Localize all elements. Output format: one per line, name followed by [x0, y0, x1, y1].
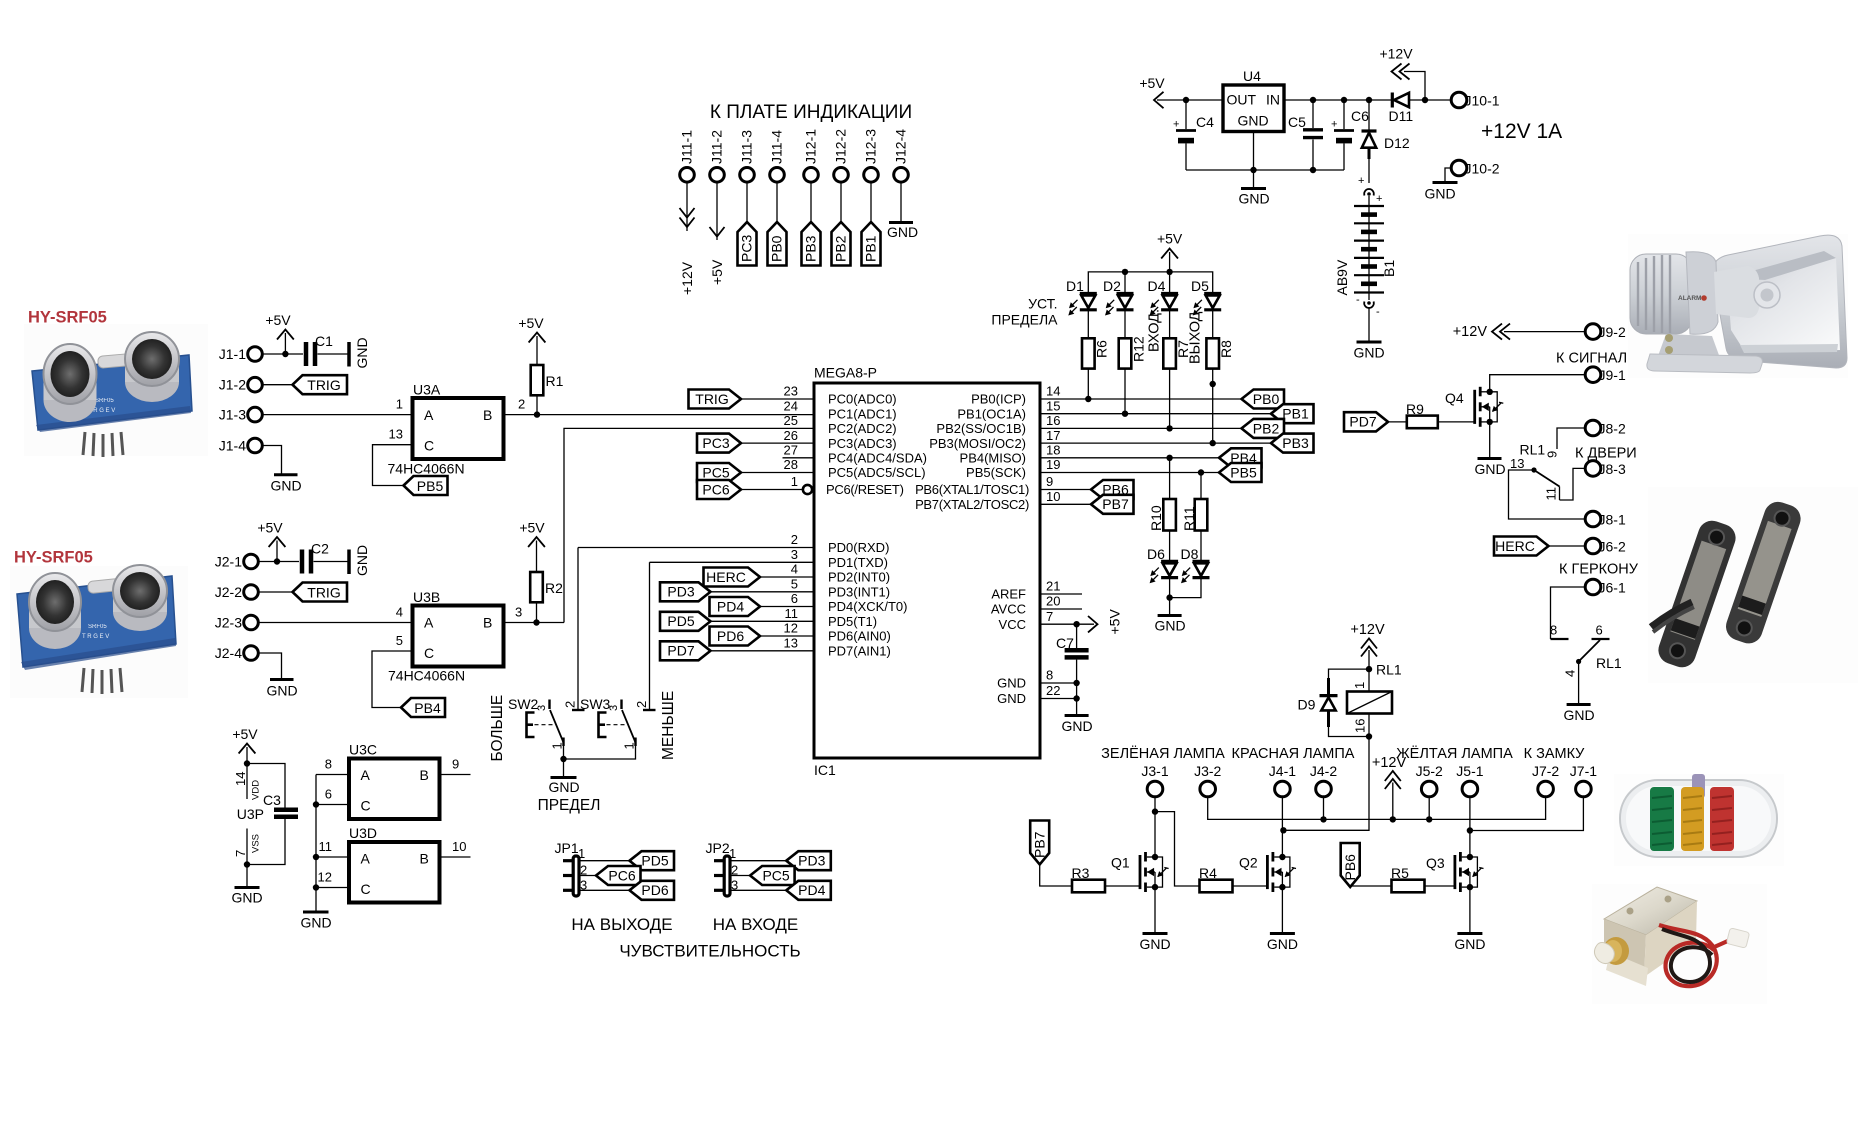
- wire coil to red lamp drain: [1283, 737, 1369, 831]
- svg-text:PC6(/RESET): PC6(/RESET): [826, 482, 904, 497]
- wire R11 drop: [1200, 473, 1202, 500]
- net flag PB0: [1242, 390, 1285, 409]
- svg-text:Q3: Q3: [1426, 855, 1445, 871]
- svg-text:J9-1: J9-1: [1599, 367, 1626, 383]
- wire C1 to ground: [318, 353, 348, 355]
- svg-text:J1-2: J1-2: [219, 377, 246, 393]
- svg-text:PD6(AIN0): PD6(AIN0): [828, 629, 891, 644]
- svg-text:1: 1: [550, 742, 565, 749]
- connector J2-3: [215, 615, 259, 631]
- svg-text:16: 16: [1046, 413, 1060, 428]
- svg-text:PB7(XTAL2/TOSC2): PB7(XTAL2/TOSC2): [915, 497, 1029, 512]
- svg-text:J7-2: J7-2: [1532, 763, 1559, 779]
- svg-text:U4: U4: [1243, 68, 1261, 84]
- svg-text:J8-2: J8-2: [1599, 420, 1626, 436]
- wire J10-2 to ground: [1445, 168, 1451, 182]
- diode D11: [1389, 93, 1452, 125]
- wire JP1-2 to PC6 flag: [579, 875, 596, 877]
- net flag PC3 (up): [738, 222, 757, 266]
- svg-text:D2: D2: [1103, 278, 1121, 294]
- svg-text:IN: IN: [1266, 92, 1280, 108]
- connector J1-2: [219, 377, 263, 393]
- svg-text:GND: GND: [1154, 618, 1185, 634]
- svg-text:ВЫХОД.: ВЫХОД.: [1188, 307, 1204, 364]
- capacitor C5: [1288, 100, 1323, 170]
- svg-text:25: 25: [784, 413, 798, 428]
- svg-text:13: 13: [784, 636, 798, 651]
- svg-text:23: 23: [784, 384, 798, 399]
- connector J2-4: [215, 645, 259, 661]
- svg-text:R1: R1: [546, 373, 564, 389]
- wire D4 drop: [1169, 272, 1171, 294]
- ground (C2, rotated): [349, 545, 370, 576]
- junction R8 wire join: [1210, 381, 1216, 387]
- svg-text:PC3: PC3: [739, 235, 755, 262]
- svg-text:74HC4066N: 74HC4066N: [388, 668, 465, 684]
- wire PB4 line: [1040, 457, 1219, 459]
- svg-text:7: 7: [1046, 609, 1053, 624]
- connector J11-3: [739, 130, 755, 182]
- wire J12-2 to PB2 flag: [840, 182, 842, 222]
- wire U3A pin 13 to PB5 flag: [373, 427, 413, 486]
- connector J5-2: [1416, 763, 1443, 797]
- junction R2/U3B-B: [533, 619, 539, 625]
- svg-text:VCC: VCC: [999, 617, 1026, 632]
- LED D5: [1191, 278, 1221, 316]
- connector J11-1: [679, 130, 695, 182]
- net flag PD6: [710, 627, 815, 646]
- transistor Q3: [1426, 852, 1484, 892]
- junction GND22: [1073, 695, 1079, 701]
- svg-text:20: 20: [1046, 594, 1060, 609]
- junction R8/PB3: [1210, 440, 1216, 446]
- net flag PB3 (up): [802, 222, 821, 266]
- connector J3-1: [1141, 763, 1168, 797]
- ground (U3P): [231, 865, 262, 906]
- svg-text:6: 6: [1596, 623, 1603, 638]
- svg-text:GND: GND: [997, 676, 1026, 691]
- wire grounded-inputs bus: [315, 775, 317, 912]
- photo HY-SRF05 sensor 1: [24, 309, 208, 458]
- label УСТ. ПРЕДЕЛА: [991, 296, 1058, 328]
- junction D12 top: [1366, 97, 1372, 103]
- svg-text:26: 26: [784, 428, 798, 443]
- connector J4-1: [1269, 763, 1296, 797]
- junction R6/PB0: [1085, 396, 1091, 402]
- svg-text:К ЗАМКУ: К ЗАМКУ: [1524, 746, 1586, 762]
- capacitor C1: [306, 333, 333, 366]
- svg-text:4: 4: [396, 605, 403, 620]
- svg-text:OUT: OUT: [1227, 92, 1257, 108]
- connector J8-1: [1585, 511, 1626, 527]
- net flag PB7 (Q1 gate): [1030, 821, 1072, 887]
- wire C3 to VSS: [247, 819, 285, 865]
- svg-text:27: 27: [784, 443, 798, 458]
- analog switch U3D: [349, 825, 440, 903]
- svg-text:PB3: PB3: [1282, 435, 1309, 451]
- wire PD1 riser to SW3: [649, 562, 651, 710]
- svg-text:J3-2: J3-2: [1194, 763, 1221, 779]
- LED D1: [1066, 278, 1097, 316]
- svg-text:9: 9: [1545, 451, 1560, 458]
- svg-text:B: B: [483, 615, 492, 631]
- wire J11-2 to +5V: [716, 182, 718, 240]
- svg-text:J8-1: J8-1: [1599, 511, 1626, 527]
- power +12V (down arrow): [679, 208, 695, 295]
- svg-text:БОЛЬШЕ: БОЛЬШЕ: [489, 695, 506, 762]
- photo siren horn: [1628, 234, 1848, 378]
- wire SW2/SW3 common: [564, 746, 636, 759]
- analog switch U3B: [388, 589, 504, 684]
- wire contact 11 to J8-3: [1560, 468, 1586, 500]
- svg-text:+12V: +12V: [1350, 622, 1385, 638]
- svg-text:14: 14: [233, 772, 248, 786]
- junction J4-1/coil: [1280, 827, 1286, 833]
- svg-text:ПРЕДЕЛ: ПРЕДЕЛ: [538, 797, 601, 814]
- svg-text:2: 2: [518, 397, 525, 412]
- connector J1-4: [219, 438, 263, 454]
- svg-text:GND: GND: [300, 915, 331, 931]
- resistor R6: [1082, 310, 1110, 399]
- IC IC1 MEGA8-P body: [814, 365, 1040, 779]
- wire U3A pin 2 to R1/PC1: [504, 397, 815, 415]
- wire J2-3 to U3B pin 4: [258, 605, 412, 623]
- svg-text:ПРЕДЕЛА: ПРЕДЕЛА: [991, 312, 1058, 328]
- svg-text:+5V: +5V: [1107, 609, 1123, 635]
- capacitor C2: [302, 541, 329, 574]
- wire U3D pin 11: [316, 839, 349, 857]
- resistor R11: [1181, 499, 1207, 561]
- connector J10-1: [1451, 92, 1500, 108]
- wire GND pin 8: [1040, 682, 1077, 684]
- net flag PB5: [1219, 463, 1262, 482]
- svg-text:КРАСНАЯ ЛАМПА: КРАСНАЯ ЛАМПА: [1232, 746, 1355, 762]
- svg-text:14: 14: [1046, 384, 1060, 399]
- power +5V (LED rail): [1157, 231, 1183, 272]
- resistor R12: [1119, 310, 1147, 414]
- svg-text:-: -: [1376, 306, 1380, 318]
- svg-text:PD3: PD3: [798, 853, 825, 869]
- power +5V (VCC, right arrow): [1088, 609, 1123, 635]
- svg-text:JP2: JP2: [706, 840, 730, 856]
- svg-text:ЗЕЛЁНАЯ ЛАМПА: ЗЕЛЁНАЯ ЛАМПА: [1101, 745, 1225, 762]
- svg-text:D6: D6: [1147, 546, 1165, 562]
- wire Q1 source to ground: [1154, 887, 1156, 933]
- svg-text:J3-1: J3-1: [1141, 763, 1168, 779]
- svg-text:21: 21: [1046, 579, 1060, 594]
- resistor R10: [1148, 499, 1176, 561]
- power +5V (U3P VDD): [232, 726, 258, 764]
- wire J1-2 to TRIG flag: [262, 384, 292, 386]
- wire JP2-1 to PD3 flag: [730, 860, 786, 862]
- net flag PB4 (U3B control): [401, 698, 445, 717]
- svg-text:13: 13: [1510, 456, 1524, 471]
- svg-text:+12V: +12V: [1372, 755, 1407, 771]
- battery B1 AB9V: [1334, 175, 1397, 341]
- connector J10-2: [1451, 160, 1500, 176]
- connector J12-3: [863, 129, 879, 182]
- svg-text:J9-2: J9-2: [1599, 324, 1626, 340]
- svg-text:AB9V: AB9V: [1334, 259, 1350, 295]
- svg-text:J2-3: J2-3: [215, 615, 242, 631]
- svg-text:PB4(MISO): PB4(MISO): [960, 451, 1026, 466]
- svg-text:НА ВХОДЕ: НА ВХОДЕ: [713, 915, 798, 934]
- junction J1-1/+5V: [282, 351, 288, 357]
- svg-text:AVCC: AVCC: [991, 602, 1026, 617]
- svg-text:R3: R3: [1072, 865, 1090, 881]
- wire J11-4 to PB0 flag: [776, 182, 778, 222]
- junction VSS/C3: [244, 861, 250, 867]
- junction R10/PB4: [1166, 455, 1172, 461]
- net flag PB0 (up): [768, 222, 787, 266]
- net flag PB4: [1219, 448, 1262, 467]
- svg-text:7: 7: [233, 850, 248, 857]
- wire J12-1 to PB3 flag: [810, 182, 812, 222]
- wire J6-1 to relay contact 8: [1551, 587, 1586, 639]
- net flag PB6: [1091, 480, 1134, 499]
- svg-text:2: 2: [634, 701, 649, 708]
- power +5V (J2-1): [257, 520, 285, 562]
- svg-text:J1-3: J1-3: [219, 407, 246, 423]
- svg-text:PC0(ADC0): PC0(ADC0): [828, 392, 897, 407]
- svg-text:11: 11: [785, 606, 799, 621]
- svg-text:HERC: HERC: [706, 569, 746, 585]
- svg-text:GND: GND: [887, 224, 918, 240]
- svg-text:PB3: PB3: [803, 235, 819, 262]
- svg-text:A: A: [424, 407, 434, 423]
- wire PD0 riser to SW2: [577, 548, 579, 711]
- junction J3-1 jog: [1152, 808, 1158, 814]
- LED D4: [1148, 278, 1179, 316]
- svg-text:B: B: [483, 407, 492, 423]
- net flag PB2 (up): [832, 222, 851, 266]
- svg-text:D11: D11: [1389, 108, 1414, 124]
- svg-text:TRIG: TRIG: [307, 584, 340, 600]
- wire IN rail: [1284, 99, 1391, 101]
- svg-text:GND: GND: [1237, 113, 1268, 129]
- wire ground rail: [1186, 169, 1344, 171]
- wire J11-1 to +12V: [686, 182, 688, 231]
- ground (Q1): [1139, 934, 1170, 953]
- net flag TRIG (J2-2): [293, 583, 348, 602]
- svg-text:D12: D12: [1384, 135, 1410, 151]
- wire PB1 line: [1040, 413, 1271, 415]
- svg-text:HERC: HERC: [1495, 538, 1535, 554]
- analog switch U3C: [349, 742, 440, 820]
- photo HY-SRF05 sensor 2: [10, 549, 188, 699]
- svg-text:PD5(T1): PD5(T1): [828, 614, 877, 629]
- connector J3-2: [1194, 763, 1221, 797]
- svg-text:8: 8: [325, 757, 332, 772]
- wire Q3 source to ground: [1469, 887, 1471, 933]
- svg-text:J12-3: J12-3: [863, 129, 879, 164]
- svg-text:Q4: Q4: [1445, 390, 1464, 406]
- wire LED supply rail: [1088, 272, 1212, 294]
- svg-text:К ДВЕРИ: К ДВЕРИ: [1575, 446, 1637, 462]
- svg-text:C: C: [424, 438, 434, 454]
- wire C2 to ground: [314, 561, 348, 563]
- svg-text:22: 22: [1046, 683, 1060, 698]
- wire D6/D8 to ground: [1170, 578, 1201, 615]
- connector J7-2: [1532, 763, 1559, 797]
- connector J9-2: [1585, 324, 1626, 340]
- wire PB5 line: [1040, 472, 1219, 474]
- connector J1-3: [219, 407, 263, 423]
- wire J12-3 to PB1 flag: [870, 182, 872, 222]
- svg-text:PB3(MOSI/OC2): PB3(MOSI/OC2): [929, 436, 1026, 451]
- svg-text:GND: GND: [1353, 345, 1384, 361]
- svg-text:TRIG: TRIG: [695, 391, 728, 407]
- wire lock bus to J7-1: [1470, 797, 1584, 831]
- svg-text:GND: GND: [270, 478, 301, 494]
- ground (Q4): [1474, 459, 1505, 478]
- net flag PC6 (JP1-2): [596, 866, 641, 885]
- wire JP1-1 to PD5 flag: [579, 860, 630, 862]
- svg-text:GND: GND: [1139, 936, 1170, 952]
- connector J6-1: [1585, 579, 1626, 595]
- svg-text:R10: R10: [1148, 505, 1164, 531]
- transistor Q4: [1445, 387, 1503, 427]
- resistor R3: [1072, 865, 1141, 892]
- junction bus J5-2: [1426, 797, 1432, 823]
- svg-text:12: 12: [318, 870, 332, 885]
- wire J1-4 to ground: [262, 446, 281, 475]
- junction C6 top: [1341, 97, 1347, 103]
- net flag PB7: [1091, 495, 1134, 514]
- svg-text:IC1: IC1: [814, 762, 836, 778]
- svg-text:A: A: [424, 615, 434, 631]
- ground (switch common): [548, 759, 579, 795]
- svg-text:8: 8: [1550, 623, 1557, 638]
- svg-text:PB7: PB7: [1102, 496, 1129, 512]
- wire PB2 line: [1040, 427, 1242, 429]
- LED D6: [1147, 546, 1178, 583]
- svg-text:PD6: PD6: [641, 882, 668, 898]
- resistor R1: [531, 365, 564, 395]
- svg-text:PB6(XTAL1/TOSC1): PB6(XTAL1/TOSC1): [915, 482, 1029, 497]
- svg-text:SW2: SW2: [508, 696, 539, 712]
- svg-text:PC2(ADC2): PC2(ADC2): [828, 421, 897, 436]
- junction pin 6 bus: [313, 801, 319, 807]
- svg-text:C5: C5: [1288, 114, 1306, 130]
- svg-text:D8: D8: [1181, 546, 1199, 562]
- svg-text:D4: D4: [1148, 278, 1166, 294]
- svg-text:10: 10: [1046, 489, 1060, 504]
- svg-text:MEGA8-P: MEGA8-P: [814, 365, 877, 381]
- svg-text:PB4: PB4: [414, 700, 441, 716]
- photo signal lamp: [1614, 774, 1784, 866]
- wire J2-2 to TRIG flag: [258, 591, 292, 593]
- wire Q1 drain to R4 (jog): [1155, 812, 1200, 886]
- svg-text:28: 28: [784, 457, 798, 472]
- svg-text:GND: GND: [1061, 718, 1092, 734]
- svg-text:PC6: PC6: [702, 481, 729, 497]
- net flag PB1: [1271, 404, 1314, 423]
- junction VCC/C7: [1073, 621, 1079, 627]
- connector J1-1: [219, 346, 263, 362]
- svg-text:+12V: +12V: [679, 261, 695, 295]
- wire PC4 stub: [783, 457, 815, 459]
- connector J9-1: [1585, 367, 1626, 383]
- svg-text:J1-4: J1-4: [219, 438, 246, 454]
- wire U4 GND pin: [1253, 132, 1255, 171]
- svg-text:+: +: [1173, 119, 1179, 131]
- junction J2-1/+5V: [274, 558, 280, 564]
- net flag PB5 (U3A control): [404, 476, 448, 495]
- junction pin 12 bus: [313, 884, 319, 890]
- net flag TRIG (PC0): [689, 390, 815, 409]
- junction D6/D8: [1166, 594, 1172, 600]
- svg-text:6: 6: [791, 591, 798, 606]
- svg-text:PD7: PD7: [667, 643, 694, 659]
- resistor R4: [1199, 865, 1268, 892]
- reset bubble: [803, 485, 812, 494]
- svg-text:C4: C4: [1196, 114, 1214, 130]
- power +5V (regulator out, left arrow): [1139, 75, 1223, 108]
- net flag PD7 (Q4 gate): [1344, 412, 1388, 431]
- resistor R8: [1206, 310, 1234, 443]
- svg-text:PD3(INT1): PD3(INT1): [828, 585, 890, 600]
- svg-text:J11-1: J11-1: [679, 130, 695, 164]
- svg-text:+5V: +5V: [265, 312, 291, 328]
- power +5V (down arrow): [709, 227, 725, 285]
- svg-text:УСТ.: УСТ.: [1028, 296, 1057, 312]
- connector J12-1: [803, 129, 819, 182]
- relay contact RL1-b: [1550, 623, 1622, 678]
- power +5V (J1-1): [265, 312, 293, 354]
- svg-text:U3C: U3C: [349, 742, 377, 758]
- svg-text:R5: R5: [1391, 865, 1409, 881]
- junction R7/PB2: [1166, 425, 1172, 431]
- svg-text:+5V: +5V: [257, 520, 283, 536]
- svg-text:PD1(TXD): PD1(TXD): [828, 555, 888, 570]
- svg-text:GND: GND: [1474, 461, 1505, 477]
- ground (Q2): [1267, 934, 1298, 953]
- label RL1 pin 9: [1520, 442, 1560, 459]
- svg-text:PB5: PB5: [417, 478, 444, 494]
- svg-text:11: 11: [1544, 487, 1559, 501]
- svg-text:PC6: PC6: [608, 867, 635, 883]
- svg-text:+12V: +12V: [1453, 324, 1488, 340]
- junction bus J4-2: [1320, 797, 1326, 823]
- svg-text:ALARM: ALARM: [1678, 295, 1701, 302]
- svg-text:PB0(ICP): PB0(ICP): [971, 392, 1026, 407]
- photo solenoid lock: [1592, 884, 1767, 1004]
- junction R1/U3A-B: [534, 411, 540, 417]
- net flag PD4: [710, 597, 815, 616]
- wire U3B pin 3 to R2 junction: [504, 605, 565, 623]
- wire U3D pin 10 (output stub): [440, 839, 471, 857]
- wire JP1-3 to PD6 flag: [579, 889, 630, 891]
- svg-text:11: 11: [319, 839, 333, 854]
- svg-text:3: 3: [515, 605, 522, 620]
- svg-text:3: 3: [608, 705, 620, 711]
- svg-text:К ПЛАТЕ ИНДИКАЦИИ: К ПЛАТЕ ИНДИКАЦИИ: [710, 102, 912, 123]
- terminal SW3 pin 2: [634, 701, 656, 710]
- wire J4-1 to Q2 drain: [1281, 797, 1283, 857]
- power +12V (lamp bus): [1372, 755, 1407, 819]
- svg-text:5: 5: [396, 633, 403, 648]
- svg-text:PD5: PD5: [667, 613, 694, 629]
- svg-text:GND: GND: [1424, 186, 1455, 202]
- wire PB7 line: [1040, 503, 1091, 505]
- wire R10 drop: [1169, 458, 1171, 499]
- junction VDD/C3: [244, 760, 250, 766]
- wire J11-3 to PC3 flag: [746, 182, 748, 222]
- svg-text:R11: R11: [1181, 506, 1197, 531]
- svg-text:PD6: PD6: [717, 628, 744, 644]
- svg-text:PD4: PD4: [798, 882, 825, 898]
